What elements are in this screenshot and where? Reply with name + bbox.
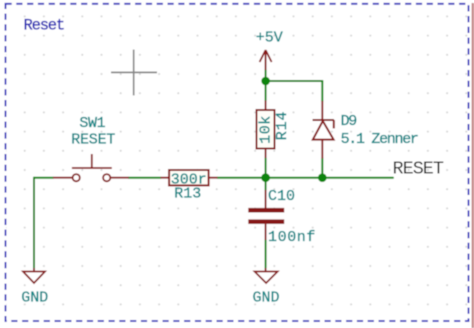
svg-text:RESET: RESET [71,132,115,149]
svg-text:R14: R14 [274,111,291,140]
svg-text:5.1 Zenner: 5.1 Zenner [341,131,418,148]
svg-text:100nf: 100nf [268,229,316,246]
svg-text:SW1: SW1 [79,115,105,132]
svg-text:GND: GND [252,290,279,307]
svg-text:+5V: +5V [256,30,283,47]
svg-text:R13: R13 [174,186,201,203]
svg-text:10k: 10k [258,115,275,144]
svg-text:RESET: RESET [393,158,444,179]
svg-text:Reset: Reset [24,16,65,34]
svg-text:D9: D9 [341,113,357,130]
svg-text:C10: C10 [268,188,295,205]
svg-text:GND: GND [21,290,48,307]
